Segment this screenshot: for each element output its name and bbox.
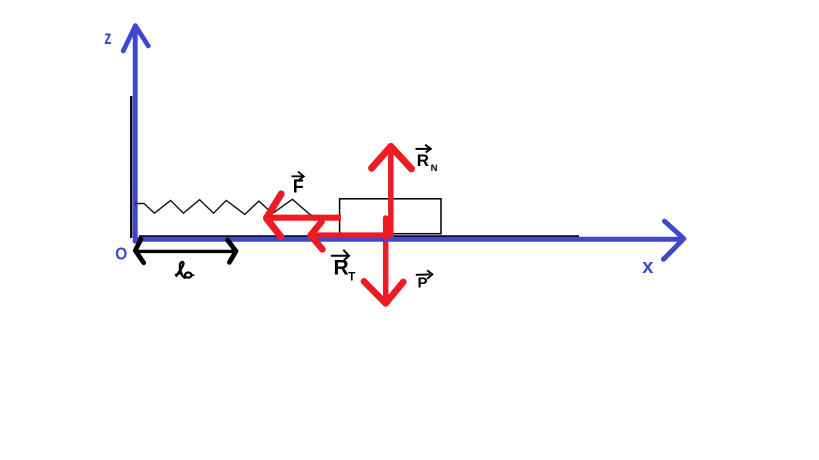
spring bbox=[135, 199, 315, 216]
svg-text:F: F bbox=[293, 177, 304, 197]
wall line bbox=[130, 96, 132, 238]
floor line bbox=[139, 235, 579, 237]
svg-text:z: z bbox=[104, 28, 111, 49]
svg-text:R: R bbox=[334, 256, 349, 279]
normal force R_N arrow (red, pointing up) bbox=[372, 146, 412, 237]
weight P arrow (red, pointing down) bbox=[364, 218, 403, 303]
label R_N with vector arrow bbox=[416, 145, 438, 175]
x-axis arrowhead bbox=[664, 221, 684, 259]
svg-text:O: O bbox=[115, 243, 127, 263]
label F with vector arrow bbox=[292, 172, 304, 197]
svg-text:R: R bbox=[417, 151, 429, 170]
measurement double arrow l0 bbox=[135, 239, 236, 262]
label l0 (script ell with subscript o) bbox=[176, 262, 194, 278]
z-axis arrowhead bbox=[123, 26, 148, 51]
svg-text:N: N bbox=[431, 163, 438, 174]
label P with vector arrow bbox=[416, 270, 433, 292]
block bbox=[340, 199, 441, 234]
reaction R_T arrow (red, pointing left along floor) bbox=[311, 222, 393, 250]
z-axis shaft bbox=[133, 27, 138, 241]
label R_T with vector arrow bbox=[331, 250, 355, 284]
svg-text:P: P bbox=[418, 275, 428, 292]
svg-text:x: x bbox=[642, 256, 653, 278]
x-axis shaft bbox=[136, 237, 680, 242]
svg-text:T: T bbox=[348, 272, 355, 284]
force F arrow (red, pointing left) bbox=[266, 194, 341, 237]
